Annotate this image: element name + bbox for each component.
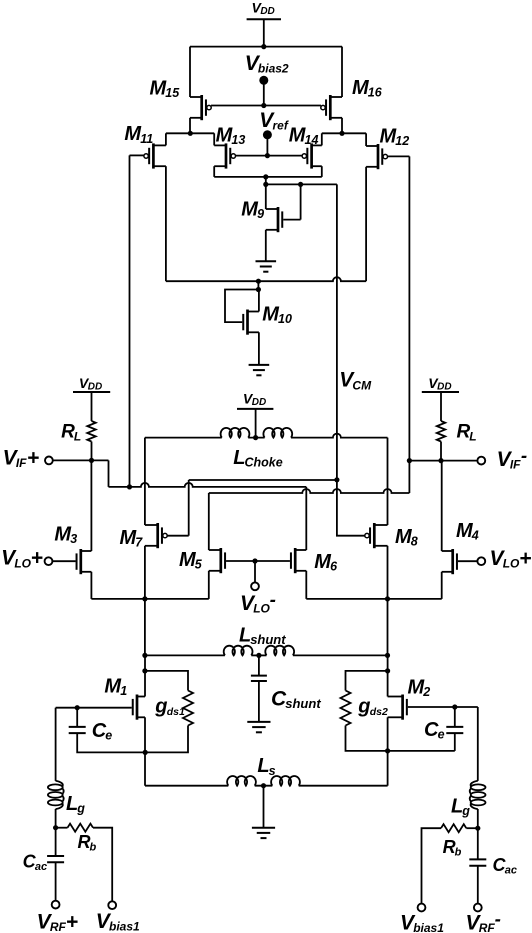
wire M10 source down bbox=[258, 332, 260, 365]
wire Lg left top bbox=[55, 708, 57, 781]
inductor LChoke left half bbox=[221, 428, 250, 438]
node M10 junction bbox=[256, 279, 261, 284]
wire Rb left to Vbias1 bbox=[93, 828, 112, 901]
node stub junction bbox=[263, 182, 268, 187]
node top rail junction bbox=[261, 44, 266, 49]
node Ls tap bbox=[261, 783, 266, 788]
wire gds2 top bbox=[346, 671, 388, 691]
transistor M11 bbox=[124, 123, 165, 168]
inductor Lg (right) bbox=[451, 781, 486, 818]
svg-text:5: 5 bbox=[195, 558, 203, 572]
wire Rb right to Vbias1 bbox=[422, 828, 442, 903]
svg-text:g: g bbox=[154, 696, 167, 718]
wire choke right leg bbox=[387, 438, 389, 525]
node right source junction bbox=[385, 596, 390, 601]
node Lshunt right junction bbox=[385, 653, 390, 658]
wire M3 source down bbox=[90, 572, 92, 599]
svg-text:R: R bbox=[78, 832, 91, 852]
transistor M15 bbox=[150, 78, 212, 121]
wire M5 source down bbox=[208, 571, 210, 599]
wire M10 gate loop bbox=[225, 290, 258, 323]
svg-text:L: L bbox=[74, 429, 81, 443]
svg-text:8: 8 bbox=[411, 535, 418, 549]
terminal VIF+ bbox=[3, 446, 53, 470]
wire Ls tap down bbox=[263, 786, 265, 828]
wire M13 source up bbox=[213, 133, 215, 145]
node gds1 top junction bbox=[142, 668, 147, 673]
power VDD (left) bbox=[73, 375, 110, 421]
wire M14 source up bbox=[321, 133, 323, 145]
wire M7 source down bbox=[144, 546, 146, 599]
terminal Vbias1 (right) bbox=[400, 904, 444, 933]
wire RL right down bbox=[440, 442, 442, 461]
wire Lshunt center bbox=[251, 654, 266, 656]
wire M4 drain up bbox=[441, 461, 443, 551]
wire Ls center bbox=[255, 785, 273, 787]
wire to VCM line bbox=[266, 183, 337, 185]
wire Lg left bottom bbox=[55, 809, 57, 828]
ground M9 bbox=[256, 261, 277, 271]
node VIF- junction bbox=[438, 458, 443, 463]
power VDD (choke) bbox=[237, 390, 273, 437]
wire Cac right bottom bbox=[477, 866, 479, 904]
transistor M3 bbox=[54, 523, 91, 574]
wire M11 drain down bbox=[165, 166, 167, 281]
capacitor Cac (right) bbox=[469, 855, 517, 877]
svg-text:14: 14 bbox=[305, 133, 319, 147]
svg-text:bias1: bias1 bbox=[109, 920, 140, 933]
inductor LChoke right half bbox=[233, 428, 292, 470]
wire M7 gate drop bbox=[188, 480, 190, 536]
wire gds1 top bbox=[145, 671, 188, 691]
node VIF+ junction bbox=[89, 458, 94, 463]
svg-text:3: 3 bbox=[70, 532, 77, 546]
transistor M14 bbox=[289, 125, 322, 169]
node M2 source junction bbox=[385, 748, 390, 753]
wire M15 drain down bbox=[189, 118, 191, 134]
wire cross-couple line1 bbox=[189, 479, 337, 481]
transistor M4 bbox=[442, 520, 479, 574]
svg-text:+: + bbox=[66, 911, 78, 933]
svg-text:LO: LO bbox=[253, 602, 270, 616]
wire M1 drain up bbox=[144, 655, 146, 696]
terminal VLO+ (left) bbox=[1, 547, 52, 571]
svg-text:12: 12 bbox=[395, 134, 409, 148]
svg-text:e: e bbox=[438, 728, 445, 742]
capacitor Ce (right) bbox=[424, 719, 463, 742]
wire M10 stub bbox=[257, 281, 259, 289]
wire M12 gate line down bbox=[408, 156, 410, 460]
wire M3 drain up bbox=[90, 460, 92, 551]
wire line3 up to VIF- node bbox=[408, 461, 410, 493]
svg-text:ds1: ds1 bbox=[167, 706, 185, 718]
svg-text:g: g bbox=[76, 802, 85, 816]
wire gds1 bottom bbox=[145, 726, 188, 753]
transistor M6 bbox=[291, 548, 338, 574]
transistor M16 bbox=[321, 77, 383, 120]
wire Ce right bottom bbox=[454, 733, 456, 751]
node Lg-Rb junction (right) bbox=[475, 826, 480, 831]
wire line2 drop to M6 bbox=[305, 487, 307, 550]
node VCM junction bbox=[334, 477, 339, 482]
wire Lg right top bbox=[477, 707, 479, 781]
transistor M10 bbox=[243, 304, 292, 335]
node right rail junction bbox=[339, 131, 344, 136]
wire cross-couple line3 bbox=[209, 489, 410, 493]
svg-text:9: 9 bbox=[257, 207, 264, 221]
wire M12 drain down bbox=[365, 167, 367, 281]
transistor M7 bbox=[120, 523, 168, 550]
wire gds2 bottom bbox=[346, 726, 455, 751]
svg-text:+: + bbox=[31, 547, 43, 570]
wire gate bus M13-M14 bbox=[235, 155, 302, 157]
wire Cshunt stub bbox=[258, 655, 260, 675]
wire Ce left stub bbox=[76, 708, 78, 727]
wire M10 drain up bbox=[258, 290, 260, 312]
svg-text:DD: DD bbox=[260, 6, 274, 17]
node Lg-Rb junction (left) bbox=[53, 825, 58, 830]
svg-text:ac: ac bbox=[505, 865, 517, 877]
svg-text:R: R bbox=[443, 837, 456, 857]
wire RL left down bbox=[91, 442, 93, 461]
terminal VLO- bbox=[240, 561, 276, 616]
wire M4 gate lead bbox=[458, 560, 477, 562]
wire M12 source up bbox=[365, 133, 367, 146]
wire M9 drain up bbox=[265, 184, 267, 209]
resistor gds1 bbox=[154, 691, 193, 726]
svg-text:RF: RF bbox=[50, 920, 67, 933]
resistor Rb (left) bbox=[56, 824, 97, 854]
node left rail junction bbox=[188, 131, 193, 136]
wire M2 drain up bbox=[387, 655, 389, 696]
node M12 gate junction bbox=[407, 458, 412, 463]
wire left mirror rail bbox=[166, 132, 214, 134]
node Ce right junction bbox=[452, 704, 457, 709]
wire Cac right top bbox=[477, 828, 479, 859]
node VLO- junction bbox=[252, 558, 257, 563]
svg-text:ref: ref bbox=[273, 119, 289, 133]
svg-text:4: 4 bbox=[471, 529, 479, 543]
svg-text:16: 16 bbox=[368, 86, 383, 100]
wire gate bus M15-M16 bbox=[211, 105, 321, 107]
node left source junction bbox=[142, 596, 147, 601]
node M9 gate junction bbox=[298, 182, 303, 187]
wire top rail bbox=[190, 46, 342, 48]
svg-text:1: 1 bbox=[120, 684, 127, 698]
capacitor Cshunt bbox=[251, 676, 321, 711]
svg-text:10: 10 bbox=[278, 312, 292, 326]
wire M11 source up bbox=[165, 133, 167, 145]
wire Ls left bbox=[145, 785, 228, 787]
node M10 gate junction bbox=[256, 287, 261, 292]
wire M11 gate lead bbox=[130, 154, 145, 156]
wire M3 gate lead bbox=[53, 560, 76, 562]
node Vref bbox=[259, 109, 289, 156]
wire choke right bbox=[291, 434, 388, 438]
svg-text:LO: LO bbox=[503, 557, 520, 571]
transistor M2 bbox=[388, 677, 431, 720]
node Lshunt left junction bbox=[142, 653, 147, 658]
resistor RL (left) bbox=[61, 421, 96, 443]
wire VIF+ jog down bbox=[108, 460, 110, 487]
node drain bus junction bbox=[263, 174, 268, 179]
node Vref junction bbox=[265, 153, 270, 158]
wire VIF- lead bbox=[409, 460, 477, 462]
svg-text:IF: IF bbox=[510, 458, 521, 472]
wire choke center bbox=[248, 437, 264, 439]
svg-text:-: - bbox=[521, 446, 527, 467]
svg-text:shunt: shunt bbox=[285, 696, 321, 711]
node Vbias2 bbox=[245, 52, 289, 106]
svg-text:DD: DD bbox=[437, 381, 451, 392]
svg-text:11: 11 bbox=[140, 132, 153, 146]
resistor RL (right) bbox=[437, 421, 477, 443]
svg-text:DD: DD bbox=[88, 381, 102, 392]
wire Ls right bbox=[299, 785, 388, 787]
wire Ce left bottom bbox=[77, 733, 145, 752]
wire Cac left bottom bbox=[55, 862, 57, 900]
node Lshunt tap bbox=[256, 653, 261, 658]
svg-text:+: + bbox=[27, 446, 39, 469]
terminal Vbias1 (left) bbox=[96, 901, 140, 933]
wire Cshunt down bbox=[258, 681, 260, 722]
transistor M5 bbox=[179, 548, 225, 573]
wire left tail down bbox=[144, 599, 146, 656]
wire M16 source up bbox=[341, 47, 343, 97]
svg-text:bias2: bias2 bbox=[258, 62, 289, 76]
wire VIF+ lead bbox=[53, 459, 109, 461]
terminal VLO+ (right) bbox=[477, 547, 531, 571]
wire M1 tail down bbox=[144, 752, 146, 785]
wire M9 gate lead bbox=[283, 219, 300, 221]
wire drain bus stub bbox=[265, 177, 267, 185]
wire Lshunt left bbox=[145, 654, 225, 656]
svg-text:IF: IF bbox=[16, 456, 27, 470]
svg-text:L: L bbox=[469, 429, 476, 443]
transistor M13 bbox=[214, 125, 245, 169]
wire M13-M14 drain bus bbox=[214, 176, 322, 178]
wire Lshunt right bbox=[293, 654, 388, 656]
wire M8 source down bbox=[387, 546, 389, 599]
wire choke left leg bbox=[144, 438, 146, 525]
wire M7 gate lead bbox=[167, 535, 189, 537]
wire Cac left top bbox=[55, 828, 57, 856]
capacitor Ce (left) bbox=[69, 720, 113, 743]
wire M5-M6 gate bus bbox=[226, 560, 290, 562]
svg-text:RF: RF bbox=[479, 921, 496, 933]
power VDD (right) bbox=[422, 375, 459, 421]
svg-text:CM: CM bbox=[352, 378, 372, 392]
wire choke left bbox=[145, 437, 222, 439]
ground Ls bbox=[252, 828, 275, 838]
wire M2 source down bbox=[387, 717, 389, 751]
wire right source bus bbox=[306, 598, 441, 600]
node gds2 top junction bbox=[385, 668, 390, 673]
terminal VRF- bbox=[466, 904, 501, 933]
resistor Rb (right) bbox=[441, 824, 478, 858]
node choke tap bbox=[253, 435, 258, 440]
wire M8 gate drop bbox=[337, 480, 365, 536]
resistor gds2 bbox=[341, 691, 388, 726]
capacitor Cac (left) bbox=[23, 852, 65, 874]
wire M11-M12 drain bus bbox=[166, 277, 366, 281]
wire M6 source down bbox=[305, 571, 307, 599]
wire Ce right stub bbox=[454, 707, 456, 727]
ground Cshunt bbox=[247, 722, 270, 732]
transistor M8 bbox=[365, 523, 418, 549]
svg-text:b: b bbox=[455, 847, 462, 859]
wire M15 source up bbox=[189, 47, 191, 97]
svg-text:7: 7 bbox=[135, 536, 143, 550]
svg-text:ds2: ds2 bbox=[370, 706, 388, 718]
inductor Lshunt left half bbox=[224, 624, 287, 655]
svg-text:2: 2 bbox=[422, 685, 430, 699]
wire right mirror rail bbox=[322, 132, 366, 134]
wire line3 drop to M5 bbox=[208, 493, 210, 550]
node VCM line bbox=[337, 184, 372, 479]
svg-text:15: 15 bbox=[165, 86, 180, 100]
inductor Lg (left) bbox=[48, 781, 85, 816]
wire M11 gate line down bbox=[129, 155, 131, 487]
inductor Lshunt right half bbox=[265, 646, 294, 656]
wire M4 source down bbox=[441, 572, 443, 599]
node Ce left junction bbox=[75, 705, 80, 710]
wire M13 drain down bbox=[213, 166, 215, 177]
svg-text:g: g bbox=[357, 696, 370, 718]
svg-text:LO: LO bbox=[14, 556, 31, 570]
wire M1 source down bbox=[144, 717, 146, 752]
wire M12 gate lead bbox=[387, 155, 409, 157]
wire Lg right bottom bbox=[477, 809, 479, 828]
transistor M12 bbox=[366, 126, 409, 170]
wire M9 gate up bbox=[300, 184, 302, 219]
inductor Ls left half bbox=[227, 755, 276, 786]
svg-text:-: - bbox=[270, 590, 276, 611]
svg-text:g: g bbox=[461, 804, 470, 818]
svg-text:-: - bbox=[495, 909, 501, 930]
wire VDD stub bbox=[263, 19, 265, 46]
node Vbias2 junction bbox=[261, 103, 266, 108]
svg-text:13: 13 bbox=[231, 133, 245, 147]
svg-text:e: e bbox=[105, 729, 112, 743]
wire M9 source down bbox=[265, 230, 267, 261]
terminal VIF- bbox=[477, 446, 527, 472]
svg-text:shunt: shunt bbox=[250, 632, 286, 647]
svg-text:Choke: Choke bbox=[245, 455, 283, 469]
ground M10 bbox=[249, 365, 270, 375]
wire right tail down bbox=[387, 599, 389, 656]
transistor M1 bbox=[104, 676, 145, 720]
wire M16 drain down bbox=[341, 118, 343, 134]
node M1 source junction bbox=[143, 750, 148, 755]
svg-text:b: b bbox=[90, 842, 97, 854]
svg-text:6: 6 bbox=[330, 560, 338, 574]
wire M1 gate lead bbox=[56, 707, 132, 709]
wire cross-couple line2 bbox=[109, 483, 307, 487]
svg-text:ac: ac bbox=[35, 861, 47, 873]
transistor M9 bbox=[241, 198, 282, 232]
terminal VRF+ bbox=[37, 901, 78, 933]
inductor Ls right half bbox=[271, 776, 300, 786]
power VDD (top) bbox=[247, 0, 281, 19]
wire M2 tail down bbox=[387, 751, 389, 786]
wire left source bus bbox=[91, 598, 208, 600]
svg-text:+: + bbox=[519, 547, 531, 570]
node M11 gate junction bbox=[127, 484, 132, 489]
svg-text:bias1: bias1 bbox=[413, 921, 444, 933]
wire M14 drain down bbox=[321, 166, 323, 177]
svg-text:DD: DD bbox=[252, 397, 266, 408]
wire M2 gate lead bbox=[408, 706, 478, 708]
